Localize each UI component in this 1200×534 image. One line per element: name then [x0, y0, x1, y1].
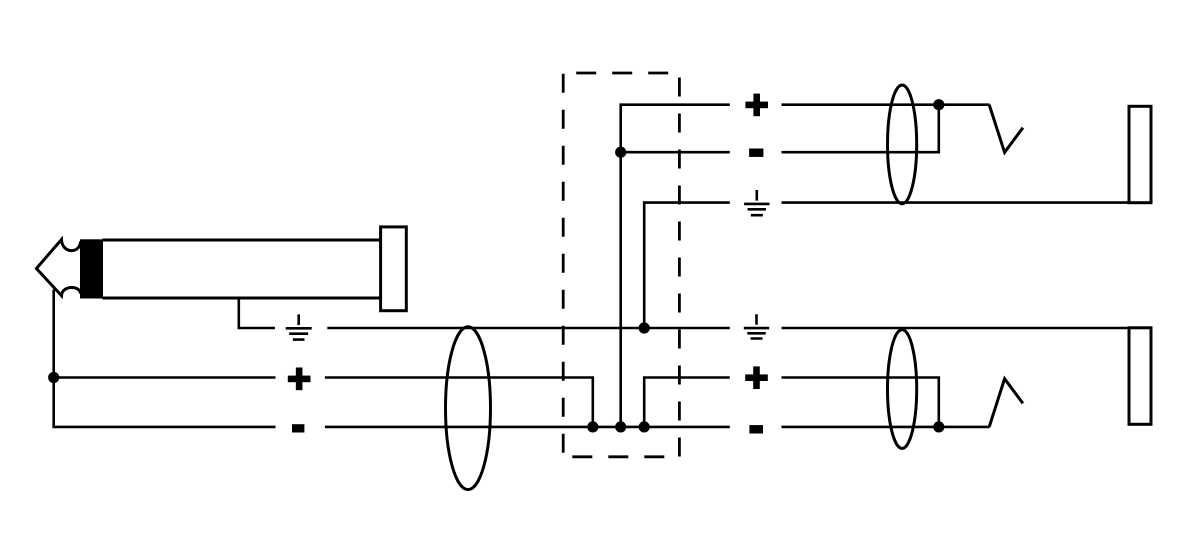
- junction node bus 3: [639, 421, 650, 432]
- junction node mid ground row: [639, 322, 650, 333]
- junction node top plus: [933, 99, 944, 110]
- wire minus row bus through dashed box: [325, 426, 730, 429]
- polarity label plus left: [288, 368, 311, 391]
- polarity label plus bottom right: [745, 366, 768, 389]
- cable shield ellipse top right: [888, 85, 917, 204]
- cable shield ellipse left: [446, 327, 491, 490]
- wire top plus row with vertical drop to bus: [621, 105, 730, 427]
- wire top ground row with corner down to mid ground: [644, 203, 730, 328]
- ground symbol top right: [744, 190, 769, 215]
- junction node on tip wire: [48, 372, 59, 383]
- dashed junction box right edge: [678, 73, 681, 457]
- polarity label minus bottom right: [749, 425, 763, 433]
- wire bottom minus row right segment: [782, 426, 990, 429]
- jack plug P1 barrel sleeve: [102, 240, 380, 298]
- wire plus row left segment: [54, 376, 276, 379]
- wire plus row left to dashed box, corner down to bus: [325, 378, 593, 427]
- wire top minus row right segment with corner up to plus: [782, 105, 939, 153]
- jack socket J2 tip contact: [989, 379, 1023, 427]
- wire bottom right plus row with corner down to bus: [644, 378, 730, 427]
- dashed junction box bottom edge: [563, 455, 679, 458]
- jack socket J1 tip contact: [989, 105, 1023, 153]
- cable shield ellipse bottom right: [888, 330, 917, 449]
- wire top minus row from junction: [621, 151, 730, 154]
- ground symbol bottom right: [744, 314, 769, 338]
- polarity label minus left: [292, 424, 304, 432]
- wire from plug tip down to minus row: [54, 290, 276, 427]
- polarity label plus top right: [745, 94, 768, 117]
- wire bottom plus row right segment with corner down to minus: [782, 378, 939, 427]
- wire top plus row right segment: [782, 103, 990, 106]
- wire from plug sleeve down to ground row: [239, 297, 275, 329]
- ground symbol left: [286, 314, 312, 339]
- wire top ground row right segment: [782, 201, 1130, 204]
- polarity label minus top right: [749, 149, 763, 157]
- wire ground mid row to right symbol: [327, 327, 730, 330]
- junction node bus 2: [615, 421, 626, 432]
- dashed junction box top edge: [563, 72, 679, 75]
- jack plug P1 body cap: [381, 227, 407, 311]
- wire ground mid row to bottom jack body: [782, 327, 1130, 330]
- jack socket J2 body: [1129, 328, 1151, 425]
- jack plug P1 tip: [36, 240, 80, 296]
- junction node bottom minus: [933, 421, 944, 432]
- dashed junction box left edge: [562, 73, 565, 457]
- jack plug P1 insulator ring: [80, 239, 103, 298]
- junction node on vertical at top minus row: [615, 147, 626, 158]
- junction node bus 1: [587, 421, 598, 432]
- jack socket J1 body: [1129, 106, 1151, 202]
